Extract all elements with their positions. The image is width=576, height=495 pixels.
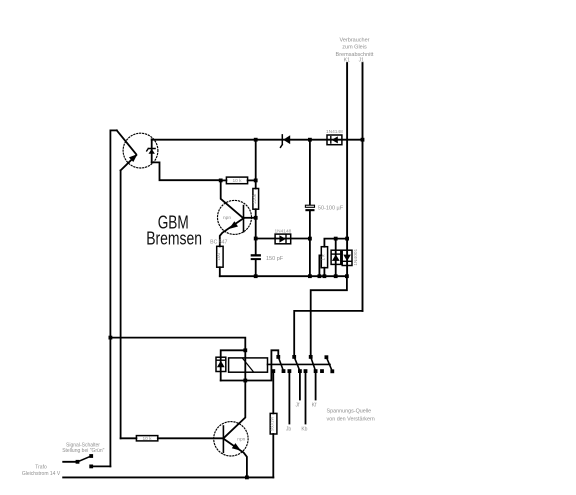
wire top-left stub to Q1 <box>110 129 116 131</box>
junction top line / C1 column <box>308 138 312 142</box>
wire 220k column lower <box>255 209 257 254</box>
wire R1 left <box>221 179 227 181</box>
diode D2 1N4148 boxed on top line <box>327 135 342 145</box>
junction mid rail / R4 bottom <box>323 274 327 278</box>
junction D3 right / C1 column <box>308 237 312 241</box>
svg-text:Verbraucher: Verbraucher <box>340 38 370 44</box>
node S2 right contact <box>298 369 302 373</box>
switch contact S1 arm <box>278 357 283 371</box>
wire C2 bottom <box>255 260 257 276</box>
switch contact S2 arm <box>294 357 300 371</box>
wire Kf <box>315 371 317 399</box>
junction left rail / relay feed <box>109 336 113 340</box>
junction relay coil top <box>243 348 247 352</box>
wire R1 right <box>248 179 256 181</box>
transistor Q3 emitter path <box>223 439 247 478</box>
transistor Q3 base wire <box>158 437 224 439</box>
switch S5 signal <box>63 461 77 463</box>
transistor Q2 base wire <box>244 217 256 219</box>
wire S5 right terminal <box>91 465 110 467</box>
svg-text:1N4148: 1N4148 <box>326 129 343 135</box>
svg-text:10 k: 10 k <box>232 178 242 184</box>
relay K coil box <box>229 358 268 372</box>
node S4 left contact <box>320 369 324 373</box>
transistor Q1 emitter diagonal <box>121 155 137 170</box>
node S1 right contact <box>282 369 286 373</box>
svg-text:Trafo: Trafo <box>35 465 47 471</box>
junction D4 top node <box>334 237 338 241</box>
wire bottom supply rail <box>63 476 273 478</box>
node S3 left contact <box>304 369 308 373</box>
svg-text:npn: npn <box>237 437 245 442</box>
junction mid rail / C1 column <box>308 274 312 278</box>
zener diode D1 on top line <box>281 135 283 147</box>
svg-text:zum Gleis: zum Gleis <box>342 45 367 51</box>
node S1 left contact <box>271 369 275 373</box>
transistor Q2 emitter arrow <box>229 221 238 229</box>
svg-text:Kb: Kb <box>301 427 307 433</box>
wire Kb <box>305 371 307 423</box>
svg-text:Stellung bei "Grün": Stellung bei "Grün" <box>62 448 104 454</box>
resistor R2 220k <box>253 189 259 210</box>
svg-text:von den Verstärkern: von den Verstärkern <box>327 417 375 423</box>
junction Q2 base node <box>254 216 258 220</box>
transistor Q2 body circle <box>218 200 252 234</box>
zener diode ZD1 inside Q1 vertical lead <box>151 139 153 162</box>
transistor Q1 body circle <box>123 133 158 168</box>
wire Q3 collector from relay <box>223 381 245 439</box>
transistor Q1 collector diagonal <box>117 130 136 154</box>
diode D4 boxed 1N4001 up <box>335 239 337 277</box>
junction bottom rail / Q3 emitter <box>245 476 249 480</box>
junction mid rail / D4 bottom <box>334 274 338 278</box>
svg-text:Jf: Jf <box>296 403 301 409</box>
node S5 right terminal <box>89 465 93 469</box>
junction mid rail / C2 <box>254 274 258 278</box>
svg-text:Gleichstrom 14 V: Gleichstrom 14 V <box>22 471 61 477</box>
transistor Q2 collector path <box>221 180 244 218</box>
wire rail J1 vertical from top <box>362 63 364 311</box>
wire C1 column lower <box>309 211 311 276</box>
node S5 left terminal <box>76 460 80 464</box>
junction D5 top / K1 rail <box>345 237 349 241</box>
svg-text:560/1W: 560/1W <box>270 417 275 431</box>
wire Q1 zener bottom L-path to R1 <box>152 162 221 180</box>
svg-text:Bremsen: Bremsen <box>146 228 202 249</box>
wire relay coil vertical <box>244 350 246 380</box>
resistor R3 100 emitter <box>217 246 223 267</box>
wire relay actuator bar <box>268 363 331 365</box>
wire R4 bottom <box>323 268 325 277</box>
svg-text:Spannungs-Quelle: Spannungs-Quelle <box>327 408 372 414</box>
switch S5 lever <box>78 456 92 462</box>
relay K coil diagonal <box>243 358 254 372</box>
junction relay coil bottom <box>243 379 247 383</box>
switch contact S4 arm <box>326 357 332 371</box>
node S3 right contact <box>314 369 318 373</box>
wire relay bottom to switch1 top <box>245 350 278 380</box>
transistor Q3 body circle <box>214 422 248 456</box>
junction top line / R2 column <box>254 138 258 142</box>
wire Jf <box>299 371 301 399</box>
node S4 right contact <box>330 369 334 373</box>
junction R1 left / Q2 collector <box>219 179 223 183</box>
node S4 common terminal <box>325 355 329 359</box>
wire C1 column upper <box>309 140 311 206</box>
transistor Q2 emitter path <box>220 218 244 246</box>
wire R5 bottom to rail <box>272 434 274 477</box>
wire Q1 emitter vertical down to R6 <box>120 170 122 438</box>
zener diode ZD1 symbol <box>149 149 155 154</box>
svg-text:1N4148: 1N4148 <box>274 229 291 235</box>
diode D6 boxed freewheel <box>216 357 226 371</box>
wire Jb <box>288 371 290 423</box>
svg-text:Bremsabschnitt: Bremsabschnitt <box>336 52 374 58</box>
wire top horizontal line <box>152 139 363 141</box>
svg-text:220k: 220k <box>252 193 257 204</box>
node S1 common terminal <box>276 355 280 359</box>
wire rail K1 routing to switch 3 <box>311 276 347 357</box>
wire relay feed horizontal <box>110 338 245 351</box>
resistor R1 10k <box>226 177 247 184</box>
resistor R6 10k base <box>136 436 157 441</box>
resistor R4 trimmer 1k <box>321 247 327 268</box>
wire 220k column upper <box>255 140 257 189</box>
switch contact S3 arm <box>311 357 316 371</box>
transistor Q3 base bar <box>222 426 224 452</box>
svg-text:J1: J1 <box>359 57 365 63</box>
svg-text:K1: K1 <box>344 57 350 63</box>
wire mid ground rail <box>220 275 347 277</box>
node S3 common terminal <box>309 355 313 359</box>
node labels top connector <box>22 38 375 478</box>
transistor Q3 emitter arrow <box>232 443 241 451</box>
svg-text:npn: npn <box>223 216 231 221</box>
junction mid rail / R4 wiper <box>318 274 322 278</box>
node S2 common terminal <box>292 355 296 359</box>
svg-text:100: 100 <box>216 253 221 261</box>
node S2 left contact <box>288 369 292 373</box>
capacitor C1 50-100uF plates <box>305 205 314 207</box>
diode D3 1N4148 boxed middle <box>256 238 275 240</box>
wire R3 bottom to rail <box>219 267 221 276</box>
resistor R5 560/1W <box>270 413 277 434</box>
wire trimmer top feed <box>324 239 347 247</box>
svg-text:Kf: Kf <box>312 403 317 409</box>
wire freewheel branch top <box>221 350 246 380</box>
svg-text:1N4001: 1N4001 <box>353 248 359 265</box>
wire rail K1 vertical from top <box>346 63 348 276</box>
wire R4 wiper tap <box>319 255 321 276</box>
svg-text:Jb: Jb <box>286 427 292 433</box>
svg-text:50-100 µF: 50-100 µF <box>318 205 344 211</box>
junction R1 right / R2 column <box>254 179 258 183</box>
svg-text:BC 547: BC 547 <box>210 239 227 245</box>
transistor Q2 base bar <box>243 206 245 232</box>
capacitor C2 150pF plates <box>251 254 261 256</box>
junction mid rail end / K1 drop <box>345 274 349 278</box>
wire rail J1 routing to switch 2 <box>294 311 362 357</box>
transistor Q1 emitter arrow <box>129 154 138 162</box>
wire left rail vertical <box>109 130 111 466</box>
node S5 lever tip <box>89 454 93 458</box>
wire S1 left terminal down to R5 <box>272 371 274 413</box>
junction top line / J1 rail <box>361 138 365 142</box>
wire freewheel branch bottom <box>221 380 246 382</box>
wire R6 left <box>121 437 137 439</box>
junction D3 left node <box>254 237 258 241</box>
diode D5 boxed 1N4001 down <box>342 250 352 265</box>
svg-text:150 pF: 150 pF <box>266 256 284 262</box>
svg-text:10 k: 10 k <box>142 436 152 442</box>
